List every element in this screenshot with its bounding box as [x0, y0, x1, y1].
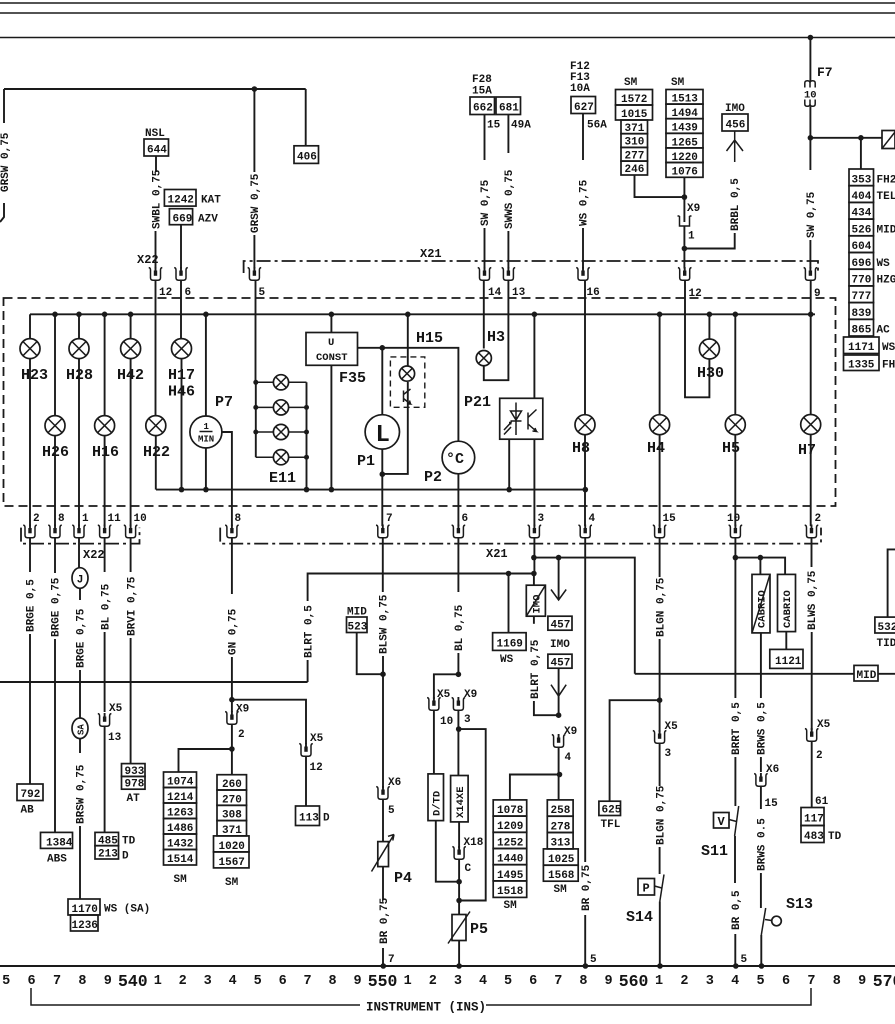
svg-text:5: 5: [2, 974, 10, 989]
svg-text:BL 0,75: BL 0,75: [454, 604, 466, 651]
svg-text:CABRIO: CABRIO: [782, 590, 794, 628]
connector X9 pin 2: [229, 697, 235, 703]
svg-text:8: 8: [78, 974, 86, 989]
svg-text:3: 3: [538, 513, 545, 525]
node box 532 TID: [875, 617, 895, 633]
svg-text:P7: P7: [215, 394, 233, 411]
svg-text:SM: SM: [225, 877, 239, 889]
svg-text:BLGN 0,75: BLGN 0,75: [655, 785, 667, 845]
svg-text:7: 7: [53, 974, 61, 989]
svg-text:KAT: KAT: [201, 195, 221, 207]
svg-text:1078: 1078: [497, 805, 524, 817]
svg-text:406: 406: [297, 152, 317, 164]
svg-text:5: 5: [757, 974, 765, 989]
wire to 353 stack: [860, 138, 862, 169]
svg-text:5: 5: [388, 805, 395, 817]
wire SM2 down: [683, 177, 685, 214]
svg-text:3: 3: [454, 974, 462, 989]
svg-text:8: 8: [329, 974, 337, 989]
svg-text:H30: H30: [697, 365, 724, 382]
node right target stack 353..865: [849, 169, 895, 337]
symbol off-page arrow box: [882, 131, 895, 149]
svg-text:434: 434: [852, 208, 872, 220]
svg-text:BRVI 0,75: BRVI 0,75: [126, 576, 138, 636]
svg-text:12: 12: [310, 762, 323, 774]
wire bypass loop: [459, 729, 486, 900]
wire 532 from edge: [888, 549, 895, 617]
svg-text:1121: 1121: [775, 656, 802, 668]
svg-text:1514: 1514: [167, 854, 194, 866]
connector X21 pin 14: [478, 267, 492, 280]
svg-text:D: D: [323, 813, 330, 825]
svg-text:978: 978: [125, 779, 145, 791]
wire branch to SM 1078 stack: [510, 775, 560, 800]
svg-text:540: 540: [118, 972, 148, 991]
svg-text:BLWS 0,75: BLWS 0,75: [807, 570, 819, 630]
svg-text:15A: 15A: [472, 86, 492, 98]
svg-text:6: 6: [28, 974, 36, 989]
svg-text:278: 278: [551, 821, 571, 833]
svg-text:X9: X9: [564, 726, 577, 738]
svg-text:8: 8: [579, 974, 587, 989]
svg-text:7: 7: [807, 974, 815, 989]
svg-text:483: 483: [804, 831, 824, 843]
svg-text:P2: P2: [424, 469, 442, 486]
svg-text:P21: P21: [464, 394, 491, 411]
svg-text:1567: 1567: [219, 857, 245, 869]
wire BL 0,75 column: [457, 538, 459, 592]
svg-text:GRSW 0,75: GRSW 0,75: [250, 173, 262, 233]
connector X21 pin 9: [804, 267, 818, 280]
thermistor P5: [452, 915, 466, 941]
svg-text:457: 457: [551, 620, 571, 632]
svg-text:560: 560: [619, 972, 649, 991]
svg-text:BRSW 0,75: BRSW 0,75: [76, 764, 88, 824]
node box 627: [571, 97, 596, 114]
svg-text:3: 3: [665, 748, 672, 760]
connector X21 pin 13: [502, 267, 516, 280]
svg-text:6: 6: [529, 974, 537, 989]
node SM stack 258..1568: [543, 800, 578, 896]
svg-text:353: 353: [852, 174, 872, 186]
node SM stack 1074..1514: [164, 772, 197, 886]
wire junction bus to 457 and MID riser: [534, 558, 635, 674]
svg-text:7: 7: [304, 974, 312, 989]
svg-text:313: 313: [551, 838, 571, 850]
node box 625 TFL: [599, 801, 621, 815]
svg-text:H3: H3: [487, 329, 505, 346]
lamp H16: [102, 312, 108, 318]
svg-text:SM: SM: [174, 874, 188, 886]
svg-text:246: 246: [625, 164, 645, 176]
symbol arrow up to 456: [727, 131, 744, 162]
instrument cluster dashed box: [4, 298, 836, 506]
svg-text:D: D: [122, 851, 129, 863]
svg-text:3: 3: [204, 974, 212, 989]
lamp H4: [657, 312, 663, 318]
svg-text:P5: P5: [470, 921, 488, 938]
wire X5 pin 10 branch: [434, 674, 459, 699]
lamp H23: [29, 314, 31, 338]
lamp H30: [707, 312, 713, 318]
svg-text:MIN: MIN: [198, 435, 214, 445]
svg-text:SWBL 0,75: SWBL 0,75: [152, 169, 164, 229]
switch S14 with P: [660, 875, 664, 902]
svg-text:SWWS 0,75: SWWS 0,75: [504, 169, 516, 229]
wire BL 0,75 column: [104, 538, 106, 572]
wire F35 right branch: [358, 348, 459, 441]
wire D/TD elbow: [436, 821, 459, 882]
wire branch to X5 pin 12: [232, 700, 306, 744]
wire BRVI 0,75 column: [130, 538, 132, 572]
lamp H42: [128, 312, 134, 318]
svg-text:669: 669: [173, 214, 193, 226]
connector X21 lower bracket: [220, 528, 821, 544]
connector X22 pin 12: [149, 267, 163, 280]
svg-text:2: 2: [238, 729, 245, 741]
svg-text:1: 1: [688, 231, 695, 243]
svg-text:SM: SM: [671, 77, 685, 89]
svg-text:FH2O: FH2O: [877, 174, 895, 186]
svg-text:1440: 1440: [497, 854, 523, 866]
svg-text:TFL: TFL: [601, 819, 621, 831]
node box 1335 FH: [844, 355, 880, 371]
svg-text:2: 2: [429, 974, 437, 989]
svg-text:8: 8: [235, 513, 242, 525]
svg-text:2: 2: [680, 974, 688, 989]
svg-text:56A: 56A: [587, 120, 607, 132]
svg-text:BR 0,75: BR 0,75: [581, 864, 593, 911]
svg-text:L: L: [376, 422, 390, 449]
svg-text:15: 15: [663, 513, 677, 525]
wire GN 0,75 column: [231, 538, 233, 594]
svg-text:ABS: ABS: [47, 854, 67, 866]
svg-text:9: 9: [858, 974, 866, 989]
svg-text:X18: X18: [464, 837, 484, 849]
svg-text:10A: 10A: [570, 83, 590, 95]
svg-text:2: 2: [33, 513, 40, 525]
svg-text:1: 1: [404, 974, 412, 989]
wire top bus: [30, 313, 815, 315]
node box 669 AZV: [169, 209, 192, 225]
svg-text:CONST: CONST: [316, 352, 348, 364]
node box 644: [144, 139, 169, 156]
meter P1 L: [381, 348, 383, 415]
node box 406: [294, 146, 319, 164]
wire X9 to junction: [683, 226, 685, 269]
wire CABRIO feed: [735, 558, 785, 575]
svg-text:SM: SM: [624, 77, 638, 89]
svg-text:550: 550: [368, 972, 398, 991]
svg-text:P: P: [643, 882, 650, 896]
opto sensor P21: [532, 312, 538, 318]
wire BRWS 0,5 column: [760, 633, 762, 698]
svg-text:MID: MID: [857, 670, 877, 682]
svg-text:AB: AB: [21, 805, 35, 817]
svg-text:F35: F35: [339, 370, 366, 387]
bracket INSTRUMENT (INS): [31, 988, 811, 1005]
svg-text:HZG: HZG: [877, 275, 895, 287]
svg-text:213: 213: [98, 849, 118, 861]
svg-text:6: 6: [279, 974, 287, 989]
wire GRSW 0,75 left drop: [3, 89, 5, 123]
lamp H7: [808, 312, 814, 318]
node box 113 D: [296, 806, 320, 826]
fuse F7: [808, 35, 814, 41]
svg-text:BRGE 0,75: BRGE 0,75: [76, 608, 88, 668]
lamp H5: [733, 312, 739, 318]
svg-text:F28: F28: [472, 74, 492, 86]
svg-text:D/TD: D/TD: [432, 791, 444, 816]
node box 1242 KAT: [164, 190, 196, 207]
svg-text:X9: X9: [464, 689, 477, 701]
node box 485 TD: [95, 832, 119, 845]
svg-text:1242: 1242: [168, 195, 194, 207]
svg-text:1076: 1076: [672, 167, 698, 179]
svg-text:770: 770: [852, 275, 872, 287]
node box 662: [470, 97, 495, 115]
svg-text:15: 15: [487, 120, 501, 132]
svg-text:456: 456: [726, 120, 746, 132]
regulator F35 U CONST: [329, 312, 335, 318]
switch S11 with V: [735, 806, 739, 836]
svg-text:523: 523: [348, 622, 368, 634]
svg-text:X6: X6: [766, 764, 779, 776]
svg-text:11: 11: [108, 513, 122, 525]
svg-text:61: 61: [815, 796, 829, 808]
svg-text:1209: 1209: [497, 821, 523, 833]
svg-text:INSTRUMENT (INS): INSTRUMENT (INS): [366, 1001, 486, 1015]
svg-text:WS (SA): WS (SA): [104, 904, 150, 916]
svg-text:SM: SM: [504, 900, 518, 912]
svg-text:9: 9: [104, 974, 112, 989]
wire WS 0,75 from 627: [582, 114, 584, 161]
svg-text:X5: X5: [665, 721, 679, 733]
node box 1384 ABS: [41, 832, 73, 848]
svg-text:8: 8: [58, 513, 65, 525]
wire branch to SM stack 1074: [179, 749, 232, 772]
wire BR 0,75 H8 column: [584, 538, 586, 862]
svg-text:X6: X6: [388, 777, 401, 789]
svg-text:BR 0,75: BR 0,75: [379, 897, 391, 944]
node box 457 b: [548, 654, 572, 668]
svg-text:TD: TD: [122, 835, 136, 847]
svg-text:1252: 1252: [497, 837, 523, 849]
svg-text:113: 113: [299, 813, 319, 825]
svg-text:P1: P1: [357, 453, 375, 470]
svg-text:IMO: IMO: [550, 639, 570, 651]
wire P21 pin3 column: [533, 538, 535, 574]
frame border line 2: [0, 12, 895, 14]
svg-text:TID: TID: [877, 638, 895, 650]
svg-text:9: 9: [354, 974, 362, 989]
wire to box 406: [305, 89, 307, 146]
lamp H17 H46: [180, 281, 182, 339]
wire BLSW to P4: [382, 674, 384, 788]
svg-text:P4: P4: [394, 870, 412, 887]
svg-text:1518: 1518: [497, 886, 524, 898]
svg-text:1169: 1169: [497, 639, 523, 651]
wire BLGN 0,75 column: [659, 538, 661, 577]
ruler scale numbers: [2, 972, 895, 991]
svg-text:1: 1: [655, 974, 663, 989]
frame border line 1: [0, 2, 895, 4]
svg-text:5: 5: [504, 974, 512, 989]
node box X14XE: [451, 776, 469, 822]
connector X21 pin 16: [576, 267, 590, 280]
svg-text:865: 865: [852, 325, 872, 337]
svg-text:BLRT 0,75: BLRT 0,75: [530, 639, 542, 699]
wire top feed horizontal: [4, 88, 306, 90]
node box 933 978 AT: [122, 764, 146, 777]
wire BLRT 0,5 riser: [307, 660, 309, 682]
node box 1171 WS: [844, 337, 880, 354]
svg-text:258: 258: [551, 805, 571, 817]
svg-text:BRGE 0,75: BRGE 0,75: [51, 577, 63, 637]
wire P7 right branch: [222, 432, 232, 526]
svg-text:BLRT 0,5: BLRT 0,5: [303, 605, 315, 658]
svg-text:4: 4: [589, 513, 596, 525]
svg-text:2: 2: [815, 513, 822, 525]
rheostat P4: [378, 842, 389, 867]
svg-text:662: 662: [473, 103, 493, 115]
node box IMO crossed: [533, 574, 535, 586]
svg-text:S13: S13: [786, 896, 813, 913]
svg-text:BL 0,75: BL 0,75: [100, 583, 112, 630]
lamp H26: [52, 312, 58, 318]
svg-text:15: 15: [765, 798, 779, 810]
node SM stack 260..1567: [214, 775, 250, 889]
svg-text:8: 8: [833, 974, 841, 989]
frame border line 3: [0, 37, 895, 39]
wire F7 to right boxes: [810, 137, 882, 139]
svg-text:3: 3: [706, 974, 714, 989]
svg-text:MID: MID: [877, 224, 895, 236]
svg-text:625: 625: [602, 805, 622, 817]
svg-text:839: 839: [852, 308, 872, 320]
svg-text:SW 0,75: SW 0,75: [480, 179, 492, 226]
svg-text:10: 10: [134, 513, 147, 525]
meter P2 degC: [442, 441, 475, 474]
svg-text:4: 4: [731, 974, 739, 989]
svg-text:2: 2: [179, 974, 187, 989]
node SM stack 1 boxes: [616, 90, 653, 106]
svg-text:404: 404: [852, 191, 872, 203]
svg-text:X21: X21: [420, 247, 442, 261]
svg-text:J: J: [77, 575, 84, 587]
svg-text:1384: 1384: [46, 838, 73, 850]
svg-text:532: 532: [878, 622, 895, 634]
svg-text:X14XE: X14XE: [455, 786, 467, 818]
node box 456: [722, 114, 748, 131]
switch S13: [761, 908, 765, 935]
svg-text:SW 0,75: SW 0,75: [806, 191, 818, 238]
svg-text:5: 5: [590, 954, 597, 966]
svg-text:7: 7: [554, 974, 562, 989]
svg-text:WS: WS: [500, 654, 514, 666]
wire branch to 625 TFL: [610, 700, 660, 801]
wire BRGE 0,75 column: [54, 538, 56, 573]
svg-text:10: 10: [727, 513, 740, 525]
wire SM1 to X9 node: [635, 175, 685, 197]
lamp H8: [584, 281, 586, 415]
svg-text:2: 2: [816, 750, 823, 762]
svg-text:BRWS 0.5: BRWS 0.5: [757, 818, 769, 871]
node SM stack 1078..1518: [493, 800, 527, 912]
svg-text:AC: AC: [877, 325, 891, 337]
lamp H3: [483, 281, 485, 349]
node box 792 AB: [17, 784, 43, 801]
svg-text:H7: H7: [798, 442, 816, 459]
lamp H28: [76, 312, 82, 318]
wire SWBL 0,75: [155, 156, 157, 172]
svg-text:9: 9: [604, 974, 612, 989]
svg-text:457: 457: [551, 658, 571, 670]
wire X21 upper dash-dot: [244, 261, 818, 273]
svg-text:°C: °C: [446, 451, 464, 468]
wire 523 elbow to BLSW: [357, 633, 383, 675]
svg-text:X9: X9: [687, 203, 700, 215]
svg-text:681: 681: [499, 103, 519, 115]
node junction BRBL: [682, 246, 688, 252]
svg-text:BRWS 0,5: BRWS 0,5: [757, 702, 769, 755]
svg-text:777: 777: [852, 291, 872, 303]
svg-text:7: 7: [386, 513, 393, 525]
svg-text:X22: X22: [137, 253, 159, 267]
svg-text:WS: WS: [877, 258, 891, 270]
svg-text:FH: FH: [882, 360, 895, 372]
svg-text:526: 526: [852, 224, 872, 236]
svg-text:627: 627: [574, 102, 594, 114]
svg-text:3: 3: [464, 714, 471, 726]
wire GRSW 0,75 mid drop: [253, 89, 255, 172]
wire SWWS 0,75 from 681: [507, 115, 509, 154]
svg-text:13: 13: [108, 732, 122, 744]
node box CABRIO crossed: [759, 558, 761, 575]
svg-text:6: 6: [782, 974, 790, 989]
svg-text:1: 1: [204, 422, 210, 432]
svg-text:U: U: [328, 337, 334, 349]
connector X22 lower bracket: [21, 528, 140, 544]
node box 457 a: [548, 616, 572, 630]
svg-text:TD: TD: [828, 831, 842, 843]
svg-text:1236: 1236: [72, 920, 98, 932]
lamp H22: [155, 281, 157, 416]
svg-text:4: 4: [479, 974, 487, 989]
svg-text:5: 5: [741, 954, 748, 966]
svg-text:H5: H5: [722, 440, 740, 457]
svg-text:792: 792: [21, 789, 41, 801]
symbol arrow down below 457: [558, 668, 560, 696]
svg-text:1171: 1171: [848, 342, 875, 354]
svg-text:1495: 1495: [497, 870, 524, 882]
svg-text:H4: H4: [647, 440, 665, 457]
svg-text:BRRT 0,5: BRRT 0,5: [731, 702, 743, 755]
svg-text:BR 0,5: BR 0,5: [731, 890, 743, 930]
svg-text:SA: SA: [77, 724, 87, 735]
wire INS connector rail: [0, 965, 895, 967]
svg-text:4: 4: [565, 752, 572, 764]
node SM stack 2 boxes: [666, 90, 703, 105]
svg-text:S11: S11: [701, 843, 728, 860]
wire MID line: [635, 673, 854, 675]
svg-text:117: 117: [804, 814, 824, 826]
connector X21 pin 12b: [678, 267, 692, 280]
svg-text:WS 0,75: WS 0,75: [579, 179, 591, 226]
svg-text:49A: 49A: [511, 120, 531, 132]
lamp H15 with phototransistor: [405, 312, 411, 318]
node junction on top feed: [252, 86, 258, 92]
